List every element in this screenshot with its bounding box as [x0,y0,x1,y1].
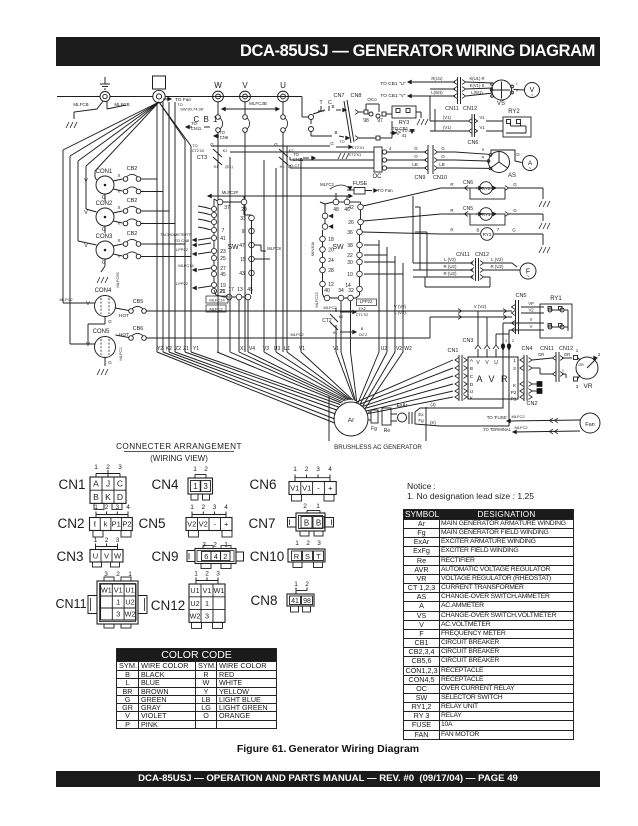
svg-text:W1: W1 [214,586,225,595]
svg-text:2: 2 [201,504,205,511]
wire stubs into chain [198,206,211,209]
svg-text:RY1: RY1 [482,212,491,217]
wire generator to CN1 [355,360,453,403]
svg-text:Ex: Ex [418,412,424,417]
svg-text:GR: GR [578,363,584,367]
svg-text:CN9: CN9 [414,175,425,181]
node 48 46 42 26 [333,199,339,205]
svg-text:B: B [361,327,364,331]
svg-text:T: T [316,552,321,561]
svg-text:1: 1 [576,348,579,353]
wire 29 chain [243,205,245,215]
svg-text:2: 2 [205,571,209,578]
svg-text:V1: V1 [302,484,311,493]
svg-text:MLFC2: MLFC2 [320,182,334,187]
svg-text:HOT: HOT [119,313,129,319]
svg-text:LPP22: LPP22 [360,299,373,304]
connector CN11 CN12 (top transformer) [457,77,459,104]
svg-text:CN6: CN6 [467,140,478,146]
svg-text:V4: V4 [249,346,255,352]
svg-text:CON1: CON1 [96,169,113,175]
svg-text:RY3: RY3 [483,232,492,237]
CB1 contact pair [243,115,248,120]
svg-text:D: D [117,492,123,502]
svg-text:C: C [117,479,123,489]
svg-text:W: W [114,551,122,560]
svg-text:G: G [512,228,516,233]
wire L (V2) [413,262,473,264]
svg-text:MLFC14: MLFC14 [178,263,194,268]
svg-text:1: 1 [224,542,228,549]
svg-text:A: A [470,358,474,364]
svg-text:SW: SW [332,244,344,251]
svg-text:U2: U2 [125,598,134,607]
svg-text:CN12: CN12 [463,106,477,112]
svg-text:W2: W2 [190,612,201,621]
svg-text:U: U [280,81,286,90]
svg-text:2: 2 [106,464,110,471]
wire tap LPP22 [198,286,211,288]
change-over switch VS [492,80,512,100]
wire bottom row right SW [323,294,357,298]
svg-text:CN2: CN2 [526,401,537,407]
svg-text:45: 45 [247,287,253,293]
svg-text:CON4: CON4 [95,288,112,294]
svg-text:r: r [516,82,518,86]
wire bottom row [214,290,248,297]
svg-text:CN6: CN6 [249,477,276,492]
svg-text:OC: OC [373,174,383,180]
svg-text:15: 15 [240,257,246,263]
svg-text:CN2: CN2 [57,516,84,531]
svg-text:GR: GR [538,352,544,357]
wire R (U2) [413,269,473,271]
svg-text:U: U [470,389,474,395]
svg-text:W2: W2 [125,610,136,619]
svg-text:20: 20 [328,248,334,254]
svg-text:L (V2): L (V2) [491,257,503,262]
svg-text:2: 2 [105,537,109,544]
wire phase drop x=245 [244,102,246,115]
svg-text:L (V2): L (V2) [394,310,406,315]
wire right drop verticals U2 V2 W2 [378,240,380,352]
svg-text:B: B [316,519,321,528]
meter A (AC ammeter) [523,156,538,171]
svg-text:3: 3 [118,464,122,471]
CB1 contact pair [216,115,221,120]
svg-text:K: K [105,492,111,502]
svg-text:3: 3 [317,540,321,547]
svg-text:CT2'X1: CT2'X1 [349,153,362,157]
svg-text:MLFC3B: MLFC3B [249,101,267,106]
svg-text:1: 1 [294,581,298,588]
svg-text:K2: K2 [166,346,172,352]
svg-text:(E1): (E1) [225,164,233,169]
svg-text:S: S [482,147,485,152]
wire Y1 pair [159,102,185,140]
svg-text:K2: K2 [223,149,228,153]
svg-text:CN12: CN12 [475,252,489,258]
svg-text:MLFC2: MLFC2 [323,305,337,310]
svg-text:MLFC14: MLFC14 [209,298,225,303]
wire vertical bus Y2 K2 Z2 Z1 [156,102,158,352]
svg-text:G: G [516,152,520,157]
svg-text:2: 2 [598,352,601,357]
svg-text:18: 18 [328,237,334,243]
svg-text:98: 98 [303,598,311,605]
svg-text:R (U2): R (U2) [491,264,504,269]
svg-text:CN8: CN8 [250,593,277,608]
svg-text:33: 33 [240,216,246,222]
wire CB6 row [146,337,430,339]
current transformer CT3 [213,149,222,157]
svg-text:V1: V1 [479,115,485,120]
svg-text:U: U [93,551,98,560]
svg-text:G: G [513,208,517,213]
svg-text:Y1: Y1 [193,346,199,352]
svg-text:2: 2 [204,466,208,473]
notice [407,481,534,501]
RY1 contacts [548,308,552,312]
wire SW drop verticals [238,300,240,352]
frequency meter F [520,263,536,279]
svg-text:CN7: CN7 [248,516,275,531]
svg-text:38: 38 [347,243,353,249]
svg-text:V: V [86,342,90,348]
svg-text:CN5: CN5 [463,206,473,212]
svg-text:MLFCB: MLFCB [73,102,88,107]
header bar [56,37,600,66]
svg-text:40: 40 [324,288,330,294]
svg-text:V: V [84,243,88,249]
svg-text:34: 34 [338,288,344,294]
svg-text:R: R [482,155,485,160]
svg-text:CONNECTER ARRANGEMENT: CONNECTER ARRANGEMENT [116,442,242,451]
svg-text:26: 26 [348,220,354,226]
svg-text:OC'2: OC'2 [359,333,368,337]
svg-text:CN10: CN10 [433,175,447,181]
svg-text:28: 28 [328,268,334,274]
svg-text:V3: V3 [263,346,269,352]
svg-text:W2: W2 [404,346,412,352]
svg-text:24: 24 [328,258,334,264]
wire tap TO CN8 [198,243,211,245]
svg-text:D: D [470,382,474,388]
regulator AVR [468,357,518,399]
svg-text:R: R [450,182,454,187]
svg-text:2: 2 [223,552,227,561]
svg-text:V1: V1 [299,346,305,352]
svg-text:21: 21 [219,289,225,295]
svg-text:B: B [93,492,99,502]
svg-text:P1: P1 [112,520,121,529]
svg-text:25: 25 [220,256,226,262]
svg-text:B: B [334,130,337,135]
svg-text:9: 9 [242,229,245,235]
node 37 29 [217,199,223,205]
svg-text:6: 6 [204,552,208,561]
svg-text:TO CN8: TO CN8 [175,238,190,243]
svg-text:CN7: CN7 [333,93,344,99]
svg-text:V (V2): V (V2) [394,304,407,309]
svg-text:36: 36 [347,230,353,236]
svg-text:G: G [441,146,445,151]
svg-text:L (V2): L (V2) [444,257,456,262]
ground below CON3 [97,277,108,283]
svg-text:CN4: CN4 [521,346,532,352]
CB1 contact pair [281,115,286,120]
svg-text:~: ~ [529,166,532,172]
svg-text:W: W [214,81,222,90]
svg-text:1: 1 [316,503,320,510]
svg-text:CN6: CN6 [220,135,229,140]
svg-text:37: 37 [224,205,230,211]
svg-text:Z2: Z2 [175,346,181,352]
svg-text:1: 1 [505,339,507,343]
svg-text:CN1: CN1 [447,348,458,354]
svg-text:RY2: RY2 [508,109,520,115]
svg-text:R: R [450,228,454,233]
svg-text:47: 47 [239,243,245,249]
svg-text:(WIRING VIEW): (WIRING VIEW) [150,454,208,463]
svg-text:3: 3 [213,504,217,511]
svg-text:V2: V2 [187,520,196,529]
svg-text:41: 41 [220,236,226,242]
svg-text:V (V2): V (V2) [474,304,487,309]
termination plugs [532,383,537,385]
svg-text:VP: VP [528,301,534,306]
svg-text:3: 3 [316,466,320,473]
svg-text:V: V [530,317,533,322]
ground hatch [66,122,77,128]
change-over switch AS [489,152,510,173]
svg-text:K(U1) R: K(U1) R [469,76,484,81]
svg-text:RY2: RY2 [482,186,491,191]
current transformer CT1 [279,149,288,157]
svg-text:3: 3 [115,504,119,511]
terminal O (ground terminal) [100,92,110,102]
svg-text:3'X2: 3'X2 [358,307,365,311]
svg-text:Fg: Fg [371,426,377,432]
svg-text:Y2: Y2 [157,346,163,352]
svg-text:+: + [224,520,229,529]
svg-text:-: - [214,520,217,529]
wire tap MLFC14 [198,268,211,270]
svg-text:10: 10 [347,272,353,278]
wire B to CN7 [311,135,332,137]
svg-text:H1: H1 [214,165,219,169]
svg-text:CT3: CT3 [197,155,207,161]
svg-text:Fan: Fan [585,422,594,428]
svg-text:TACHOMETER'T': TACHOMETER'T' [160,232,192,237]
label MLFC14 boxed [206,296,228,303]
svg-text:X: X [117,238,120,243]
svg-text:7: 7 [222,228,225,234]
svg-text:41: 41 [402,133,407,138]
svg-text:B: B [470,366,473,372]
wire left mini chain 4 8 [322,213,328,219]
svg-text:CN11: CN11 [293,157,304,162]
svg-text:CN3: CN3 [56,549,83,564]
wire (V1) V1 rows into RY2 [430,120,468,122]
wire G O LB rows [387,151,426,153]
svg-text:CB2: CB2 [127,198,138,204]
svg-text:TO 'FUSE': TO 'FUSE' [487,415,508,420]
svg-text:4: 4 [214,552,218,561]
connector CN9 CN10 bracket [427,145,429,174]
svg-text:2: 2 [512,339,514,343]
svg-text:U2: U2 [381,346,388,352]
wire GR to VR [532,358,552,360]
svg-text:2: 2 [306,540,310,547]
svg-text:Z1: Z1 [183,346,189,352]
svg-text:(V1): (V1) [443,125,452,130]
svg-text:GR: GR [564,352,570,357]
svg-text:-: - [317,484,320,493]
svg-text:CN11: CN11 [456,252,470,258]
svg-text:V: V [104,551,109,560]
svg-text:K(V1) S: K(V1) S [470,83,485,88]
svg-text:V1: V1 [333,346,339,352]
svg-text:TO: TO [192,144,197,148]
meter V (AC voltmeter) [525,83,540,98]
svg-text:48: 48 [333,207,339,213]
svg-text:1: 1 [94,537,98,544]
svg-text:X1: X1 [240,346,246,352]
svg-text:CT2'X2: CT2'X2 [192,149,205,153]
svg-text:~: ~ [531,93,534,99]
svg-text:A: A [93,479,99,489]
svg-text:U1: U1 [190,586,199,595]
svg-text:U1: U1 [284,346,291,352]
svg-text:45: 45 [220,272,226,278]
svg-text:AS: AS [508,173,516,179]
svg-text:CN10: CN10 [250,549,285,564]
svg-text:Ar: Ar [348,417,355,424]
svg-text:J: J [106,479,110,489]
wire converge top fan [157,352,335,423]
wire phase drop x=283 [282,102,284,115]
svg-text:3: 3 [513,366,516,372]
svg-text:V: V [86,301,90,307]
svg-text:VR: VR [583,383,592,390]
svg-text:V: V [84,210,88,216]
svg-text:1: 1 [190,504,194,511]
svg-text:CB6: CB6 [133,326,144,332]
svg-text:V: V [485,360,489,366]
svg-text:CN5: CN5 [515,293,526,299]
svg-text:23: 23 [220,249,226,255]
svg-text:TO CB1 "V": TO CB1 "V" [380,93,405,99]
svg-text:G: G [108,319,112,324]
exciter field ExFg [408,412,410,424]
relay RY3 (mid) [441,233,480,235]
svg-text:V2: V2 [528,308,534,313]
wire tap TACHOMETER'T' [198,238,211,240]
wires CN12 to VS [466,82,493,83]
svg-text:4: 4 [389,146,392,151]
svg-text:G: G [513,182,517,187]
svg-text:7: 7 [497,227,500,232]
svg-text:(V1): (V1) [443,115,452,120]
svg-text:CN5: CN5 [138,516,165,531]
label MLFC8 [254,244,261,246]
rectifier Fg Re [368,411,371,413]
svg-text:14: 14 [345,283,351,289]
svg-text:43: 43 [239,271,245,277]
svg-text:+: + [476,212,479,218]
svg-text:V2: V2 [396,346,402,352]
svg-text:MLFC2: MLFC2 [511,414,525,419]
svg-text:V: V [84,178,88,184]
label TO V1-J25 41 [393,131,396,134]
svg-text:MLFC2: MLFC2 [59,297,73,302]
svg-text:22: 22 [347,253,353,259]
svg-text:R(U1): R(U1) [431,76,443,81]
svg-text:CB2: CB2 [127,166,138,172]
svg-text:G: G [108,360,112,365]
svg-text:CN6: CN6 [463,180,473,186]
svg-text:2: 2 [303,503,307,510]
svg-text:Fg: Fg [418,418,424,423]
svg-text:30: 30 [347,260,353,266]
svg-text:MLFC55: MLFC55 [115,272,120,288]
wire junction to CN4 [503,322,521,324]
svg-text:U3: U3 [274,346,281,352]
svg-text:U1: U1 [125,586,134,595]
svg-text:O: O [441,154,445,159]
svg-text:Y: Y [562,369,565,373]
svg-text:S: S [305,552,310,561]
over current relay OC [374,147,382,172]
svg-text:3: 3 [116,610,120,619]
svg-text:3: 3 [216,571,220,578]
svg-text:2: 2 [305,466,309,473]
svg-text:~: ~ [527,274,530,280]
svg-text:OCo: OCo [367,97,377,102]
wire MLFC2P long arrow [208,195,352,197]
svg-text:MIN30A: MIN30A [310,241,315,256]
svg-text:CB2: CB2 [127,231,138,237]
svg-text:1: 1 [205,599,209,608]
svg-text:U2: U2 [190,599,199,608]
svg-text:H1: H1 [280,165,285,169]
svg-text:CON2: CON2 [96,201,113,207]
svg-text:MLFC2: MLFC2 [514,425,528,430]
svg-text:+: + [328,484,333,493]
svg-text:4: 4 [126,504,130,511]
generator Ar [334,402,368,436]
svg-text:V: V [476,360,480,366]
svg-text:(J): (J) [430,402,436,407]
svg-text:A V R: A V R [476,374,509,384]
svg-text:VS: VS [497,101,505,107]
svg-text:4: 4 [328,466,332,473]
svg-text:TO: TO [339,140,344,144]
svg-text:MLFC8: MLFC8 [267,246,281,251]
svg-text:2: 2 [116,571,120,578]
svg-text:42: 42 [348,205,354,211]
svg-text:CN11: CN11 [55,597,86,611]
svg-text:CB5: CB5 [133,299,144,305]
svg-text:G: G [414,146,418,151]
svg-text:V1: V1 [203,586,212,595]
svg-text:C: C [470,374,474,380]
svg-text:CN4: CN4 [151,477,178,492]
svg-text:LPP22: LPP22 [176,281,189,286]
svg-text:4: 4 [224,504,228,511]
svg-text:17: 17 [228,287,234,293]
